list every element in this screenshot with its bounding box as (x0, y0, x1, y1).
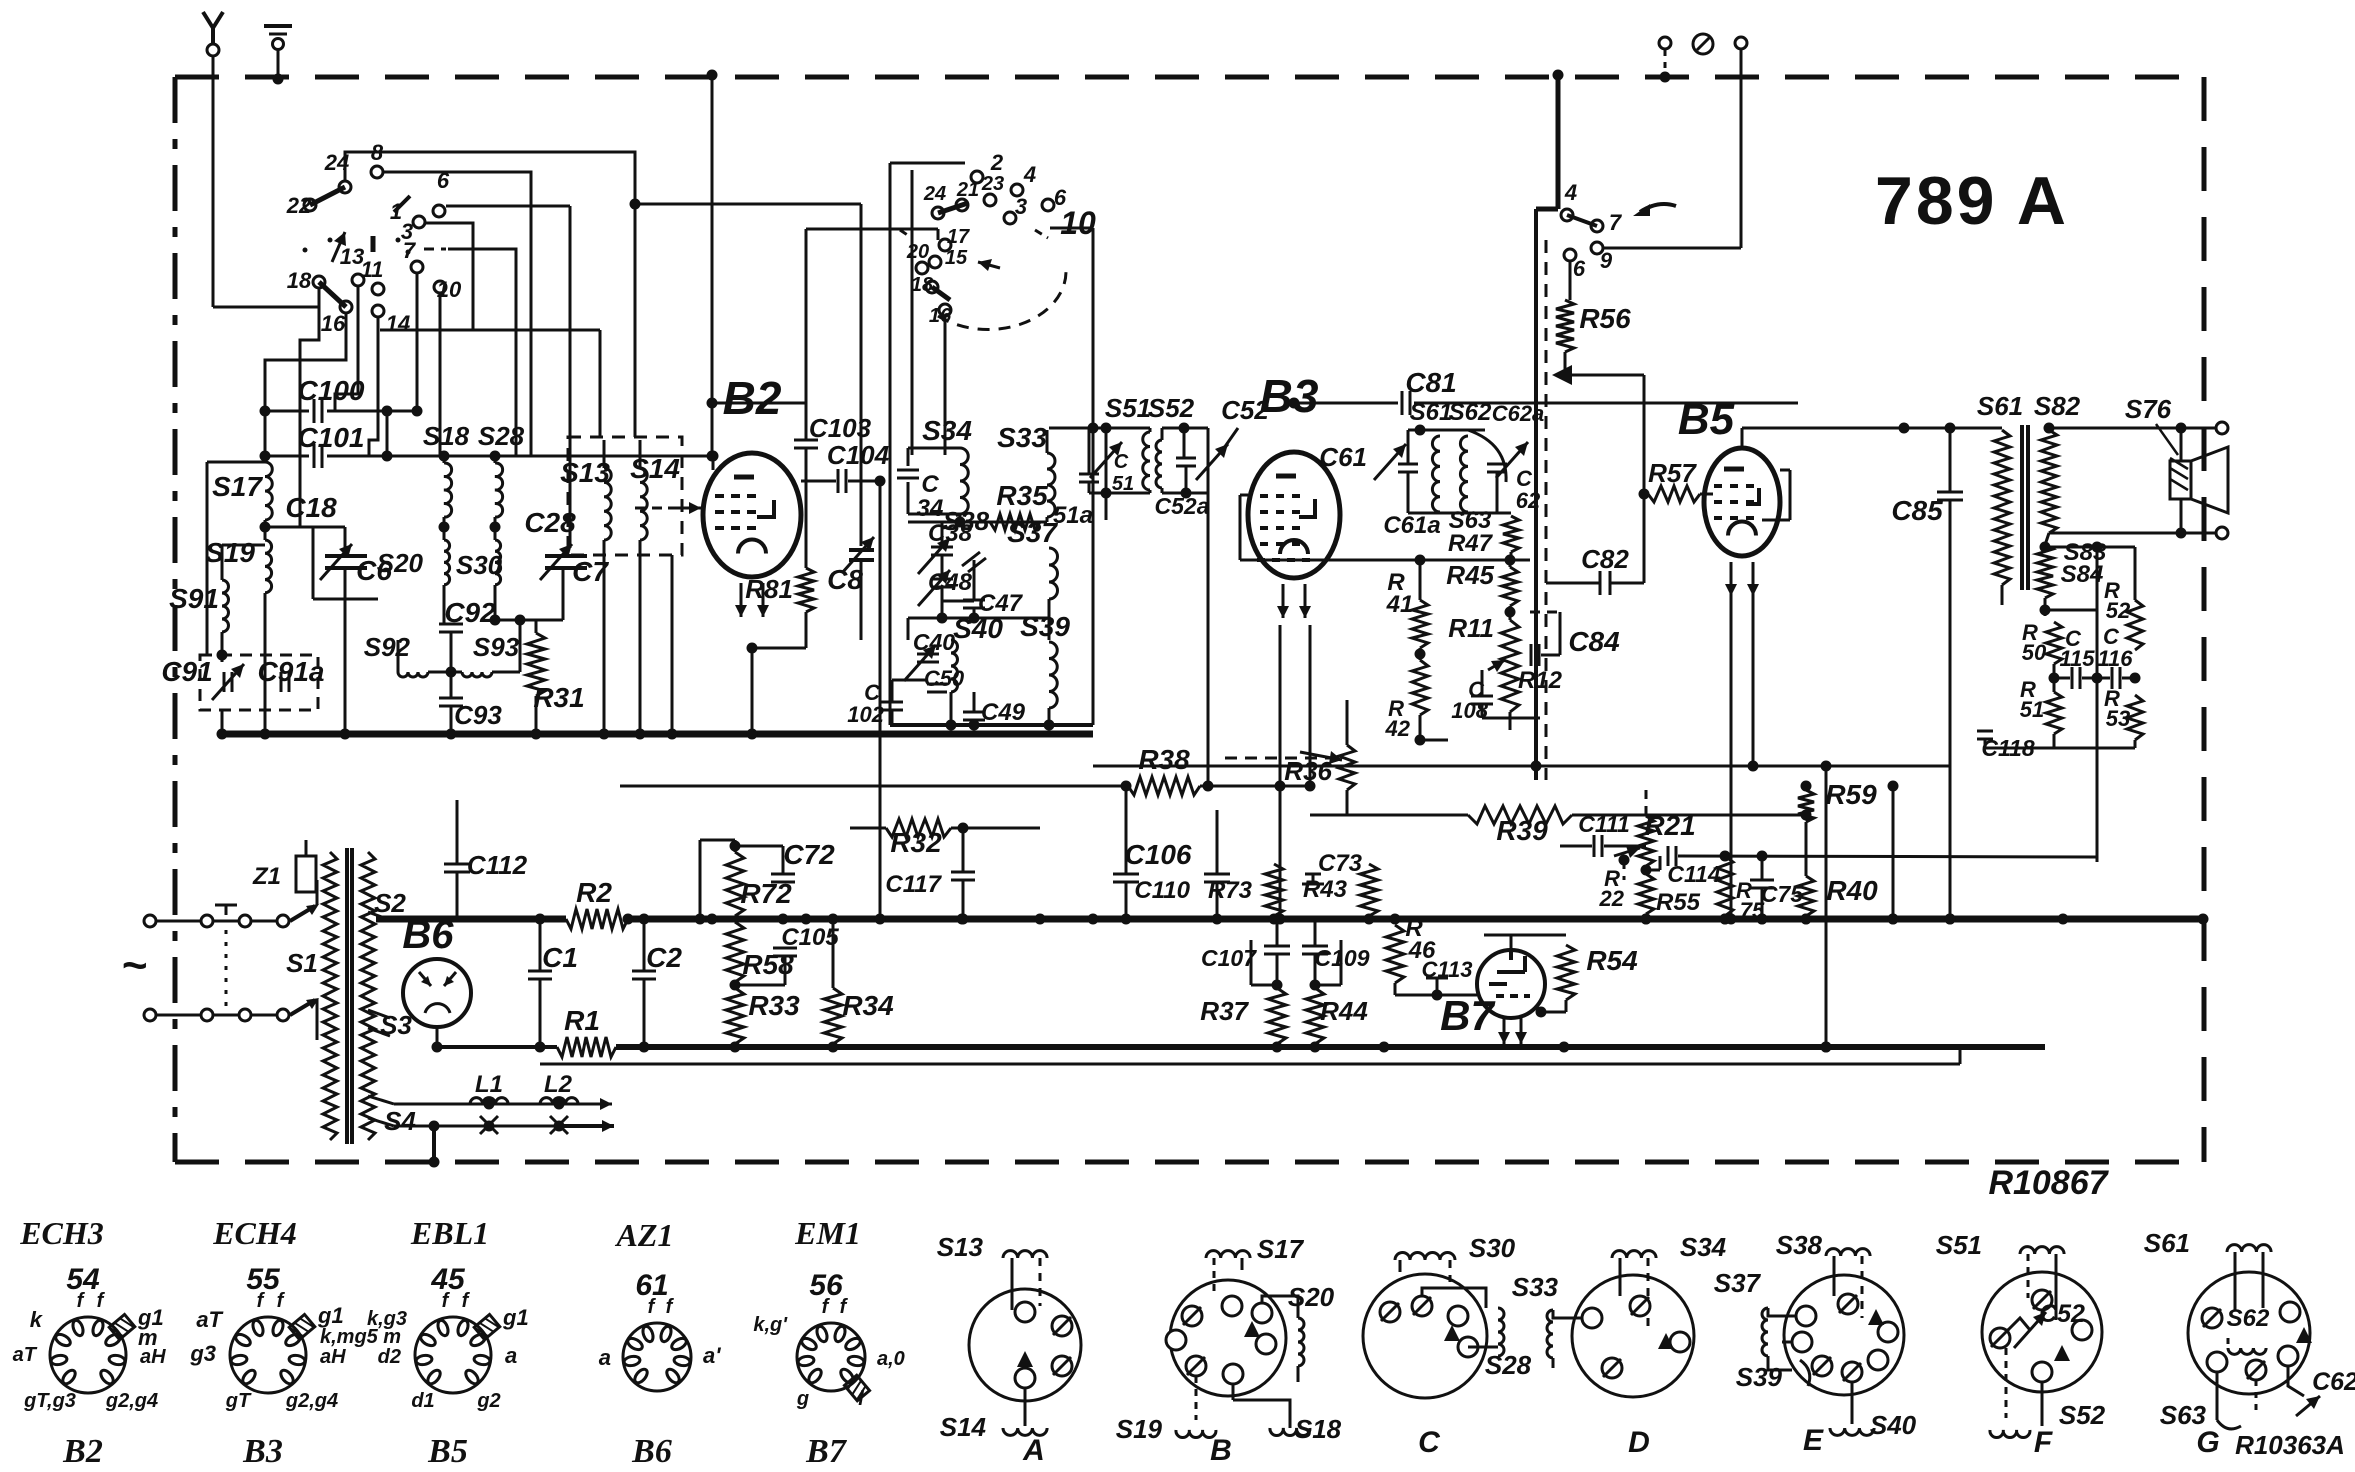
resistor R45 (1502, 567, 1518, 606)
wire (1553, 1310, 1582, 1318)
junction (1757, 851, 1768, 862)
svg-text:C114: C114 (1667, 861, 1720, 887)
leader line C52 (1224, 428, 1238, 448)
junction (535, 914, 546, 925)
tube B5 grid (1746, 500, 1754, 504)
wire (735, 845, 783, 848)
capacitor C28 trimmer arrow (540, 544, 572, 580)
wire (1039, 1258, 1042, 1306)
wire (890, 162, 965, 165)
pot wiper R11 (1488, 660, 1505, 672)
wire (1240, 494, 1248, 497)
capacitor C113 (1426, 978, 1448, 995)
switch contact (413, 216, 425, 228)
wire (2030, 1426, 2042, 1430)
wire (805, 612, 808, 648)
capacitor C112 (444, 871, 470, 874)
svg-text:C52: C52 (2039, 1300, 2085, 1328)
socket G pin (2207, 1352, 2227, 1372)
terminal (144, 1009, 156, 1021)
resistor S81 primary winding (1994, 430, 2010, 585)
svg-text:L2: L2 (544, 1071, 573, 1098)
coil S93 (462, 672, 492, 677)
switch contact 7 (1591, 220, 1603, 232)
capacitor C38 trimmer arrow (918, 538, 950, 574)
wire (1048, 522, 1050, 548)
wire (1540, 1005, 1542, 1012)
capacitor C40 (917, 653, 939, 656)
wire (908, 617, 1049, 620)
svg-text:C91a: C91a (258, 656, 325, 687)
svg-text:gT,g3: gT,g3 (23, 1390, 76, 1412)
junction (1660, 72, 1671, 83)
svg-text:S30: S30 (456, 550, 503, 580)
capacitor C48 (931, 578, 953, 581)
socket EM1 key (844, 1375, 869, 1401)
wire (671, 555, 674, 734)
coil S28 (495, 463, 503, 517)
svg-text:C: C (1114, 451, 1129, 473)
svg-text:S17: S17 (212, 471, 263, 502)
socket AZ1 pin (664, 1367, 681, 1385)
wire (1603, 247, 1741, 250)
resistor R21 (1638, 816, 1654, 866)
wire (221, 545, 224, 580)
tube B2 heater lead (757, 583, 769, 617)
junction (1179, 423, 1190, 434)
wire (1105, 428, 1108, 493)
capacitor C72 (771, 873, 795, 876)
socket F circle (1982, 1272, 2102, 1392)
svg-text:C85: C85 (1891, 495, 1943, 526)
wire (539, 1047, 541, 1064)
socket B pin (1223, 1364, 1243, 1384)
coil S92 (398, 672, 428, 677)
socket C circle (1363, 1274, 1487, 1398)
wire (734, 840, 737, 852)
socket E pin (1792, 1332, 1812, 1352)
tube B3 grid (1276, 542, 1284, 546)
svg-text:S13: S13 (937, 1232, 984, 1262)
coil S61 (1432, 436, 1440, 512)
wire (327, 455, 713, 458)
coil S14 (1003, 1428, 1047, 1435)
tube B5 cathode (1728, 521, 1756, 535)
wire (1572, 814, 1806, 817)
capacitor C103 (794, 439, 818, 442)
wire (1213, 1258, 1216, 1296)
wire (305, 892, 307, 905)
junction (1269, 914, 1280, 925)
wire (1516, 654, 1529, 656)
socket F index index triangle (2054, 1345, 2070, 1361)
wire (1035, 230, 1048, 238)
resistor R51 (2046, 692, 2062, 734)
resistor R39 (1468, 806, 1572, 824)
wire (305, 840, 308, 856)
tube B3 envelope (1248, 452, 1340, 578)
switch contact (956, 199, 968, 211)
resistor R53 (2127, 695, 2143, 740)
socket EM1 pin (838, 1367, 855, 1385)
svg-text:G: G (2196, 1426, 2219, 1459)
junction (382, 406, 393, 417)
wire (2180, 499, 2183, 533)
wire (443, 456, 446, 463)
tube B3 grid (1292, 494, 1300, 498)
svg-text:7: 7 (403, 238, 417, 263)
switch contact (939, 239, 951, 251)
tube socket EBL1 (415, 1317, 491, 1393)
wire (1484, 934, 1566, 937)
junction (1415, 425, 1426, 436)
wire (559, 1120, 614, 1132)
wire (1017, 170, 1040, 184)
svg-text:C49: C49 (981, 699, 1026, 726)
tube B2 electrode (757, 500, 774, 517)
junction (1088, 423, 1099, 434)
wire (368, 851, 390, 853)
wire (2288, 1366, 2304, 1396)
wire (961, 211, 963, 300)
svg-text:4: 4 (1023, 162, 1036, 187)
junction (1379, 1042, 1390, 1053)
svg-text:C103: C103 (809, 413, 872, 443)
wire (214, 1014, 238, 1017)
coil S13 (1003, 1251, 1047, 1258)
wire (2049, 427, 2181, 430)
socket B index index triangle (1244, 1321, 1260, 1337)
wire (1276, 954, 1279, 988)
tube B5 grid (1730, 484, 1738, 488)
wire (1399, 1260, 1402, 1272)
wire (1216, 882, 1219, 919)
wire (848, 480, 880, 483)
resistor R75 (1717, 856, 1733, 916)
switch contact 4 (1561, 209, 1573, 221)
svg-text:C40: C40 (913, 629, 955, 655)
junction (957, 914, 968, 925)
wire (1251, 984, 1277, 987)
resistor R52 (2127, 600, 2143, 650)
socket AZ1 pin (626, 1336, 644, 1352)
junction (1505, 607, 1516, 618)
wire (539, 979, 542, 1047)
junction (1415, 735, 1426, 746)
svg-text:g3: g3 (189, 1341, 216, 1366)
junction (2176, 528, 2187, 539)
wire (1724, 916, 1726, 919)
wire (950, 618, 952, 640)
wire (941, 522, 944, 547)
wire (1861, 1256, 1864, 1318)
wire (535, 696, 538, 734)
socket ECH4 pin (278, 1368, 295, 1386)
svg-text:23: 23 (981, 173, 1004, 195)
wire (1207, 493, 1210, 786)
wire (2122, 677, 2135, 680)
junction (1641, 914, 1652, 925)
svg-text:ECH4: ECH4 (212, 1215, 297, 1251)
wire (1530, 611, 1560, 614)
capacitor C50 (927, 683, 947, 686)
wire (1761, 888, 1764, 919)
wire (1419, 560, 1422, 600)
resistor R2 (566, 909, 628, 929)
svg-text:EBL1: EBL1 (410, 1215, 489, 1251)
svg-text:S20: S20 (1288, 1282, 1335, 1312)
capacitor C49 (963, 711, 985, 714)
wire (1851, 1382, 1854, 1424)
junction (446, 729, 457, 740)
wire (620, 785, 1128, 788)
wire (264, 520, 267, 540)
junction (432, 1042, 443, 1053)
svg-text:S3: S3 (380, 1010, 412, 1040)
capacitor C101 (321, 444, 324, 468)
wire (335, 287, 358, 411)
wire (1467, 430, 1469, 436)
wire (1225, 757, 1330, 760)
wire (1241, 1258, 1244, 1270)
wire (1293, 403, 1295, 452)
junction (1945, 914, 1956, 925)
svg-text:R31: R31 (533, 682, 584, 713)
wire (1048, 599, 1051, 640)
capacitor C48 (931, 586, 953, 589)
switch contact (433, 205, 445, 217)
capacitor C111 (1593, 835, 1596, 857)
wire (1011, 1258, 1014, 1310)
S63 hook (2217, 1420, 2241, 1429)
wire (850, 827, 886, 830)
transformer core (345, 848, 349, 1144)
junction (707, 398, 718, 409)
resistor R11 (1501, 620, 1519, 712)
junction (599, 729, 610, 740)
tube B2 grid (731, 526, 740, 530)
wire (1565, 1000, 1568, 1012)
coil S62 (1460, 436, 1468, 512)
wire (1276, 919, 1279, 946)
socket F pin (2032, 1362, 2052, 1382)
wire (1161, 488, 1164, 493)
resistor R57 (1648, 486, 1700, 502)
capacitor C110 (1204, 881, 1230, 884)
wire (394, 1125, 600, 1128)
svg-text:22: 22 (286, 193, 312, 218)
svg-text:S28: S28 (1485, 1350, 1532, 1380)
wire (860, 560, 863, 640)
wire (1768, 1308, 1796, 1316)
svg-text:L1: L1 (475, 1071, 503, 1098)
coil S40 (951, 640, 958, 692)
junction (955, 517, 966, 528)
capacitor C91 (223, 672, 226, 692)
socket G pin (2246, 1360, 2266, 1380)
svg-text:EM1: EM1 (794, 1215, 861, 1251)
svg-text:22: 22 (1599, 886, 1625, 911)
socket ECH4 pin (251, 1319, 265, 1337)
junction (730, 1042, 741, 1053)
wire (535, 620, 538, 633)
svg-text:g1: g1 (317, 1303, 344, 1328)
socket ECH3 pin (104, 1332, 122, 1348)
junction (1432, 990, 1443, 1001)
tube B5 electrode (1746, 488, 1759, 504)
wire (639, 540, 642, 734)
svg-text:S38: S38 (1776, 1230, 1823, 1260)
svg-text:R10867: R10867 (1988, 1164, 2109, 1202)
svg-text:S4: S4 (384, 1106, 416, 1136)
wire (1768, 1356, 1792, 1370)
capacitor C51 (1079, 481, 1099, 484)
capacitor C108 (1471, 703, 1493, 706)
svg-text:R34: R34 (842, 990, 894, 1021)
wire (941, 555, 944, 576)
junction (801, 914, 812, 925)
wire (1646, 869, 1660, 872)
wire (892, 679, 928, 682)
switch dashed link (424, 248, 446, 251)
junction (490, 451, 501, 462)
switch contact (352, 274, 364, 286)
wire (1560, 845, 1592, 848)
svg-text:C82: C82 (1581, 544, 1629, 574)
dashed chassis frame bottom (175, 1160, 2204, 1165)
junction (1505, 555, 1516, 566)
resistor R56 (1556, 300, 1574, 352)
tube B3 electrode (1299, 499, 1315, 517)
junction (260, 406, 271, 417)
socket B circle (1170, 1280, 1286, 1396)
junction (1720, 914, 1731, 925)
switch contact (929, 256, 941, 268)
svg-text:S30: S30 (1469, 1233, 1516, 1263)
wire (1482, 717, 1540, 720)
junction (969, 613, 980, 624)
svg-text:S39: S39 (1020, 611, 1070, 642)
svg-text:S62: S62 (1449, 399, 1492, 426)
wire (1678, 856, 2097, 857)
resistor R31 (527, 633, 545, 696)
svg-text:C75: C75 (1761, 881, 1804, 907)
wire (973, 692, 976, 712)
wire (1985, 747, 2135, 750)
svg-text:789 A: 789 A (1875, 163, 2069, 239)
wire (390, 920, 400, 964)
tube B2 grid (731, 510, 740, 514)
svg-text:g1: g1 (502, 1305, 529, 1330)
junction (1559, 1042, 1570, 1053)
HT bus wire (628, 916, 2203, 923)
svg-text:S20: S20 (377, 548, 424, 578)
wire (1276, 1344, 1298, 1382)
svg-text:S76: S76 (2125, 394, 2172, 424)
socket ECH4 key (289, 1314, 315, 1339)
junction (2130, 673, 2141, 684)
socket A pin (1015, 1368, 1035, 1388)
wire (384, 172, 531, 456)
resistor R37 (1268, 988, 1286, 1044)
junction (260, 451, 271, 462)
loudspeaker S76 (2170, 447, 2228, 513)
svg-text:R32: R32 (890, 827, 942, 858)
socket ECH3 key (109, 1314, 135, 1339)
wire (157, 920, 200, 923)
svg-text:R45: R45 (1446, 560, 1494, 590)
wire (1207, 428, 1210, 493)
svg-text:115: 115 (2059, 646, 2095, 671)
wire (540, 1063, 1960, 1066)
wire (2180, 428, 2183, 461)
svg-text:g: g (796, 1388, 809, 1410)
resistor R50 (2046, 622, 2062, 664)
capacitor C2 (632, 970, 656, 973)
svg-text:51: 51 (2020, 697, 2044, 722)
junction (707, 70, 718, 81)
resistor R46 (1386, 925, 1404, 983)
capacitor C47 (963, 599, 985, 602)
svg-text:11: 11 (361, 257, 384, 282)
wire (1780, 469, 1790, 472)
switch contact (971, 171, 983, 183)
socket ECH3 pin (91, 1319, 105, 1337)
svg-text:C52a: C52a (1155, 493, 1210, 519)
switch contact 9 (1591, 242, 1603, 254)
svg-text:B7: B7 (805, 1433, 848, 1470)
wire (380, 329, 600, 332)
junction (1101, 488, 1112, 499)
svg-text:R35: R35 (996, 480, 1048, 511)
svg-text:B2: B2 (723, 372, 782, 424)
wire (265, 455, 309, 458)
junction (828, 914, 839, 925)
svg-text:aT: aT (13, 1344, 38, 1366)
socket ECH4 pin (271, 1319, 285, 1337)
junction (1212, 914, 1223, 925)
socket EBL1 pin (473, 1354, 490, 1366)
wire (428, 671, 462, 674)
switch contact (916, 262, 928, 274)
wire (1496, 430, 1498, 464)
capacitor C106 (1113, 881, 1139, 884)
wire (456, 800, 459, 863)
svg-text:a': a' (703, 1343, 721, 1368)
switch contact (1004, 212, 1016, 224)
capacitor C106 (1113, 873, 1139, 876)
capacitor C100 (321, 399, 324, 423)
tube B2 envelope (703, 453, 801, 577)
coil S40 (1830, 1428, 1874, 1435)
junction (1088, 914, 1099, 925)
socket ECH4 pin (288, 1354, 305, 1366)
socket E pin (1812, 1356, 1832, 1376)
wire (1949, 500, 1952, 919)
wire (927, 618, 929, 654)
wire (1645, 866, 1647, 874)
wire (2030, 1330, 2042, 1362)
wire (1050, 227, 1093, 230)
junction (1101, 423, 1112, 434)
resistor R42 (1412, 660, 1428, 715)
capacitor C85 (1937, 499, 1963, 502)
svg-text:24: 24 (923, 183, 946, 205)
tube B2 grid (747, 510, 756, 514)
wire (1597, 827, 1599, 836)
svg-text:S33: S33 (1512, 1272, 1559, 1302)
wire (603, 540, 606, 734)
